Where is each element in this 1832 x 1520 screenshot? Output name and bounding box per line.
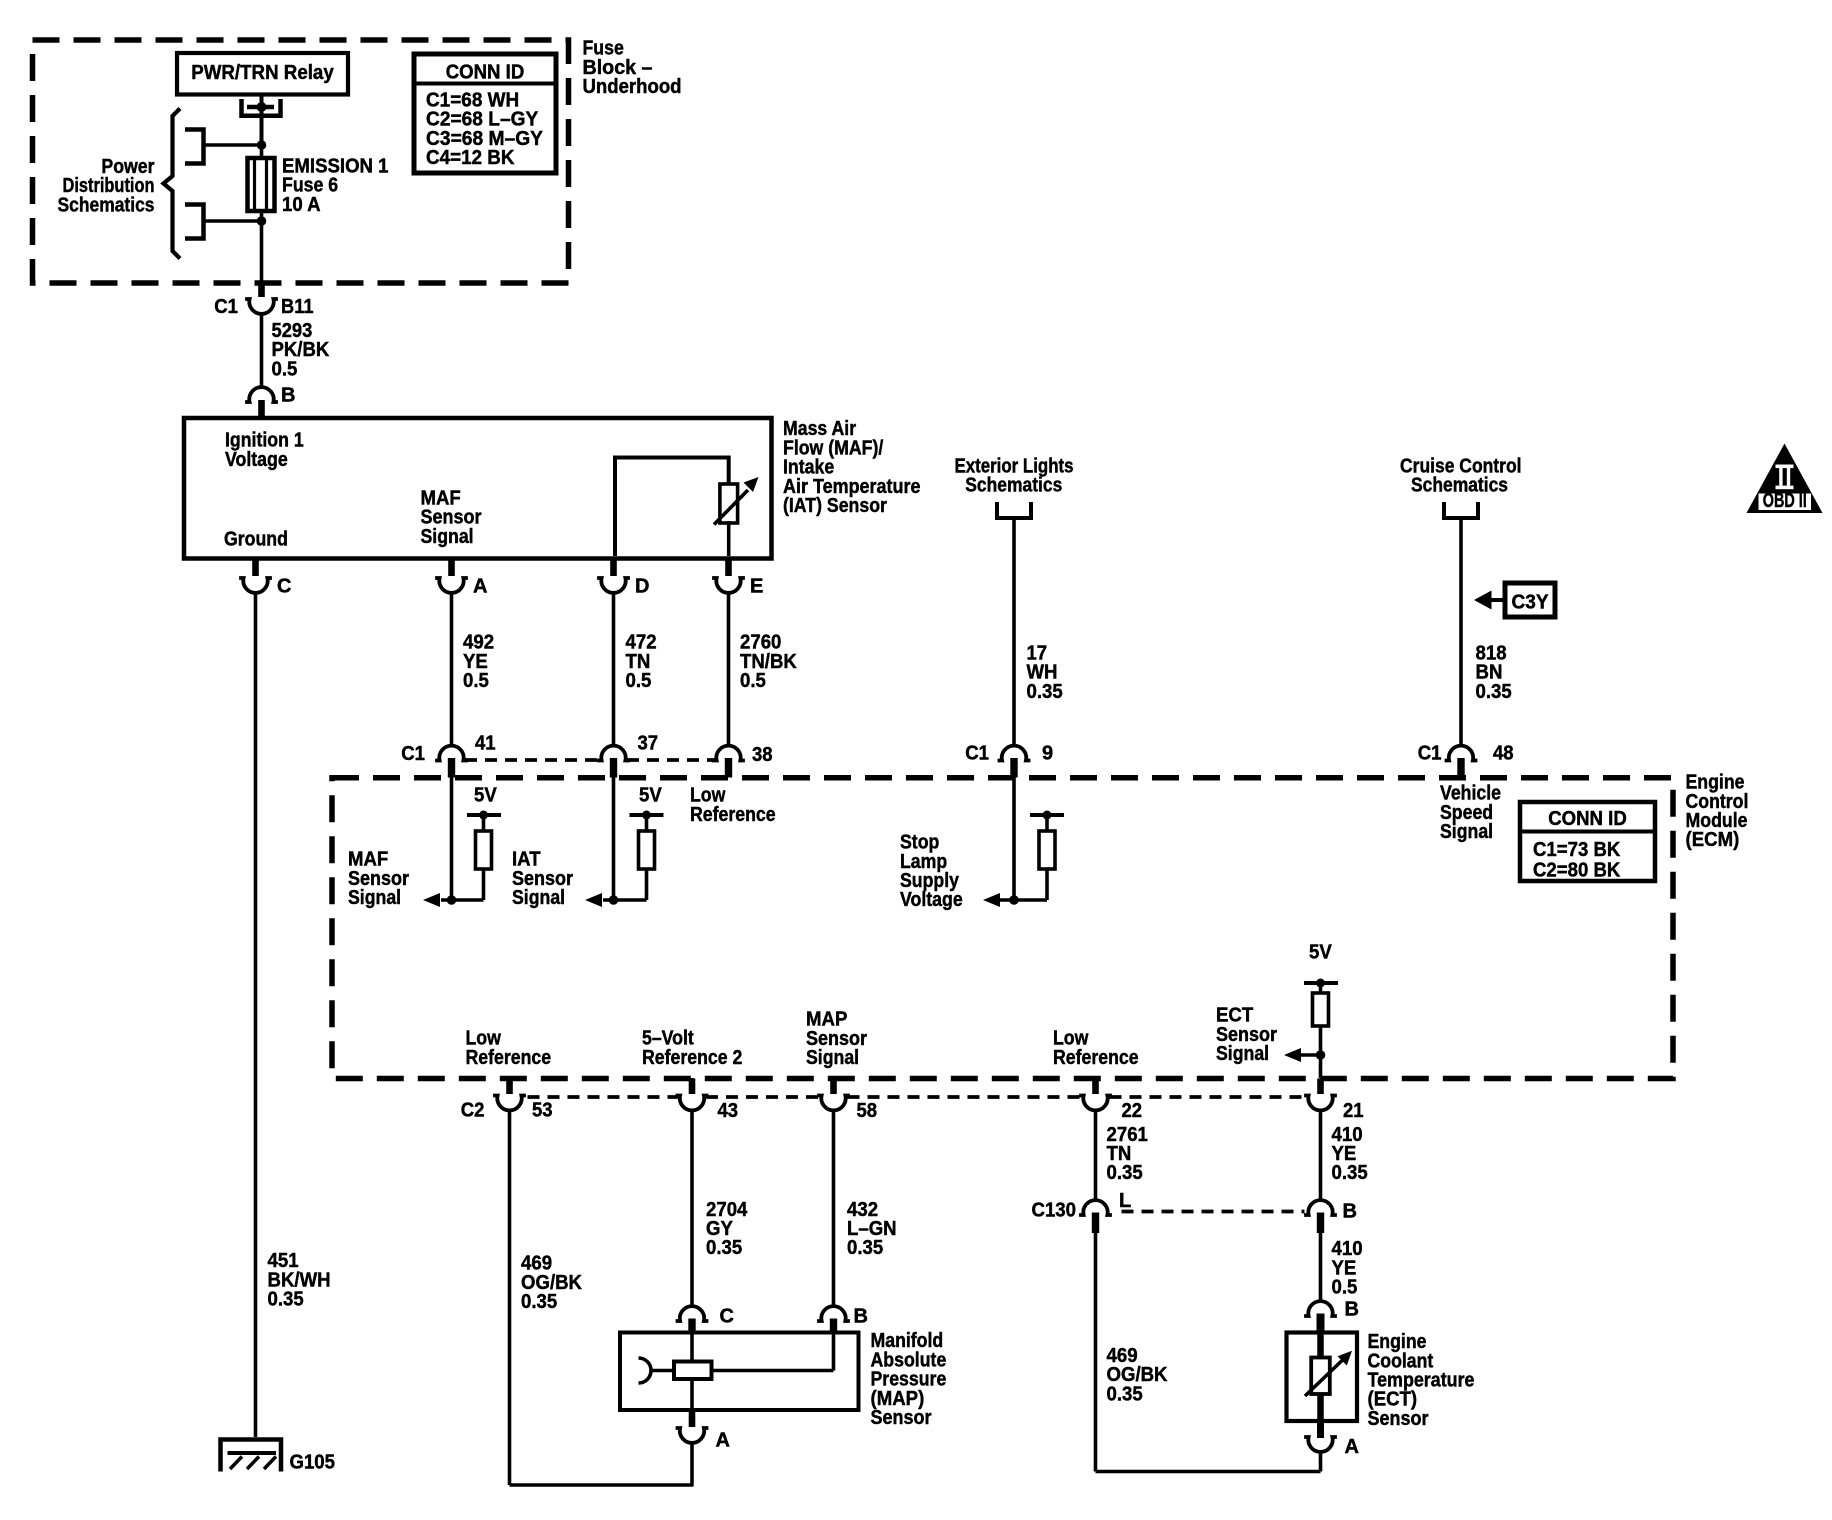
svg-text:Sensor: Sensor [1368,1408,1429,1430]
svg-text:C3Y: C3Y [1512,592,1550,614]
svg-text:(IAT) Sensor: (IAT) Sensor [783,495,887,517]
svg-text:C: C [720,1306,734,1328]
svg-text:L: L [1119,1190,1131,1212]
svg-text:Schematics: Schematics [965,475,1062,497]
svg-text:C1: C1 [965,743,989,765]
svg-text:C4=12 BK: C4=12 BK [426,147,515,169]
svg-text:E: E [750,576,763,598]
svg-text:0.35: 0.35 [1107,1383,1143,1405]
svg-text:Reference: Reference [1053,1047,1139,1069]
svg-text:0.35: 0.35 [847,1237,883,1259]
svg-text:0.5: 0.5 [272,358,298,380]
svg-text:D: D [635,576,649,598]
svg-text:0.5: 0.5 [1332,1277,1358,1299]
svg-text:PWR/TRN Relay: PWR/TRN Relay [191,62,334,84]
svg-text:0.5: 0.5 [463,670,489,692]
svg-text:C2: C2 [461,1100,485,1122]
svg-text:Reference: Reference [690,804,776,826]
svg-text:41: 41 [475,733,496,755]
svg-text:37: 37 [638,733,659,755]
svg-text:5V: 5V [1309,942,1332,964]
svg-text:B: B [281,385,295,407]
svg-text:0.35: 0.35 [1107,1162,1143,1184]
svg-text:5V: 5V [639,785,662,807]
svg-text:38: 38 [752,744,773,766]
svg-text:C: C [277,576,291,598]
svg-text:Schematics: Schematics [1411,475,1508,497]
svg-text:Reference: Reference [466,1047,552,1069]
svg-text:C1: C1 [401,743,425,765]
svg-text:0.35: 0.35 [1332,1162,1368,1184]
svg-text:0.35: 0.35 [706,1237,742,1259]
svg-text:C1: C1 [1418,743,1442,765]
svg-text:9: 9 [1042,743,1053,765]
svg-text:C1: C1 [214,296,238,318]
svg-text:(ECM): (ECM) [1686,829,1740,851]
svg-text:5V: 5V [474,785,497,807]
svg-text:53: 53 [532,1100,553,1122]
svg-text:10 A: 10 A [282,194,321,216]
svg-text:C130: C130 [1032,1200,1077,1222]
svg-text:G105: G105 [290,1452,336,1474]
svg-text:0.5: 0.5 [740,670,766,692]
svg-text:0.35: 0.35 [521,1291,557,1313]
svg-text:Signal: Signal [1216,1043,1269,1065]
svg-text:CONN ID: CONN ID [1548,808,1627,830]
svg-text:58: 58 [857,1100,878,1122]
svg-text:B: B [854,1306,868,1328]
svg-text:B11: B11 [281,296,314,318]
svg-text:0.5: 0.5 [626,670,652,692]
svg-text:A: A [473,576,487,598]
svg-text:A: A [716,1430,730,1452]
svg-text:Signal: Signal [806,1047,859,1069]
svg-text:C1=73 BK: C1=73 BK [1533,839,1621,861]
svg-text:Sensor: Sensor [871,1407,932,1429]
svg-text:C2=80 BK: C2=80 BK [1533,860,1621,882]
svg-text:Signal: Signal [1440,821,1493,843]
svg-text:Signal: Signal [421,526,474,548]
svg-text:B: B [1345,1299,1359,1321]
svg-text:22: 22 [1122,1100,1143,1122]
svg-text:Voltage: Voltage [900,889,963,911]
svg-text:Underhood: Underhood [583,76,682,98]
svg-text:CONN ID: CONN ID [446,62,525,84]
svg-text:0.35: 0.35 [1027,681,1063,703]
svg-text:0.35: 0.35 [1476,681,1512,703]
svg-text:Reference 2: Reference 2 [642,1047,742,1069]
svg-text:B: B [1343,1201,1357,1223]
svg-text:43: 43 [718,1100,739,1122]
svg-text:48: 48 [1493,743,1514,765]
svg-text:0.35: 0.35 [268,1289,304,1311]
svg-text:OBD II: OBD II [1763,490,1807,512]
svg-text:Ground: Ground [224,529,288,551]
svg-text:Signal: Signal [512,887,565,909]
svg-text:Voltage: Voltage [225,449,288,471]
svg-text:Schematics: Schematics [58,194,155,216]
svg-text:Signal: Signal [348,887,401,909]
svg-text:A: A [1345,1436,1359,1458]
svg-text:21: 21 [1343,1100,1364,1122]
